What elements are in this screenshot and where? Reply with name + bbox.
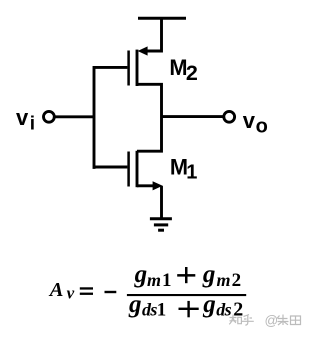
wire output to vo terminal xyxy=(162,115,224,118)
svg-text:1: 1 xyxy=(162,270,172,291)
transistor M1 source arrow xyxy=(153,181,163,190)
numerator plus xyxy=(177,274,195,277)
ground xyxy=(150,219,172,230)
svg-text:g: g xyxy=(202,261,216,288)
svg-text:v: v xyxy=(67,284,75,303)
svg-text:m: m xyxy=(147,270,161,290)
transistor M1 gate bar xyxy=(127,152,130,187)
char zhi xyxy=(229,315,241,325)
svg-text:i: i xyxy=(30,113,35,134)
svg-text:g: g xyxy=(128,291,142,318)
char tian xyxy=(291,316,301,325)
wire vi to gate bus xyxy=(54,115,94,118)
equals sign xyxy=(80,287,93,289)
wire M2 gate xyxy=(94,66,127,69)
wire gate bus vertical xyxy=(93,66,96,169)
svg-text:M: M xyxy=(169,55,187,80)
VDD supply bar xyxy=(138,17,186,20)
transistor M2 gate bar xyxy=(127,51,130,86)
svg-text:m: m xyxy=(217,270,231,290)
svg-text:g: g xyxy=(134,261,148,288)
wire M1 source to ground xyxy=(160,186,163,219)
node vo terminal circle xyxy=(224,111,235,122)
char hu xyxy=(242,315,254,326)
svg-text:2: 2 xyxy=(232,270,242,291)
svg-text:1: 1 xyxy=(186,161,197,183)
svg-text:A: A xyxy=(48,279,64,301)
svg-text:2: 2 xyxy=(186,61,198,85)
watermark zhihu @zhutian xyxy=(229,315,300,326)
transistor M2 source arrow xyxy=(138,46,148,55)
svg-text:1: 1 xyxy=(157,300,167,321)
char zhu xyxy=(277,315,289,326)
wire M2 drain to output node to M1 drain xyxy=(137,84,162,151)
denominator plus xyxy=(179,308,199,310)
transistor M1 channel xyxy=(136,151,139,187)
transistor M2 channel xyxy=(136,50,139,86)
svg-text:o: o xyxy=(256,116,268,138)
wire VDD stem to M2 source xyxy=(147,18,162,51)
svg-text:s: s xyxy=(224,300,232,320)
svg-text:v: v xyxy=(243,108,256,133)
wire M1 source xyxy=(137,184,153,187)
svg-text:g: g xyxy=(202,291,216,318)
svg-text:@: @ xyxy=(265,313,279,328)
minus sign xyxy=(105,291,117,293)
wire M1 gate xyxy=(94,166,127,169)
svg-text:v: v xyxy=(16,105,29,130)
formula Av = -(gm1+gm2)/(gds1+gds2) xyxy=(48,261,246,321)
node vi terminal circle xyxy=(44,111,55,122)
fraction bar xyxy=(127,294,246,296)
